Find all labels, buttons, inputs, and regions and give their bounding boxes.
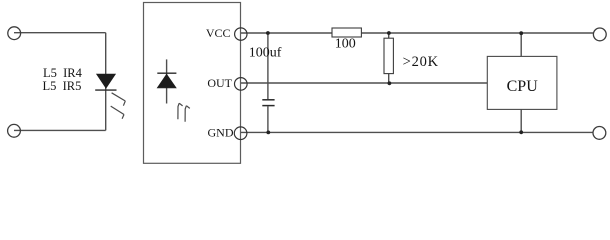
- capacitor C1 branch upper wire: [267, 33, 269, 99]
- wire OUT line: [241, 82, 487, 84]
- pin OUT circle: [235, 78, 248, 91]
- terminal J2 (bottom left): [8, 124, 21, 137]
- pin GND circle: [234, 127, 247, 140]
- svg-text:CPU: CPU: [507, 78, 539, 95]
- resistor R1 body: [332, 28, 361, 37]
- terminal J1 (top left): [8, 27, 21, 40]
- svg-text:OUT: OUT: [207, 76, 232, 90]
- junction dot GND-C1: [266, 131, 270, 135]
- wire top-left horizontal: [14, 32, 106, 34]
- LED D1 emission arrow 2: [111, 106, 124, 119]
- photodiode cathode bar: [157, 72, 176, 74]
- terminal J3 (top right): [593, 28, 606, 41]
- LED D1 triangle: [97, 74, 116, 88]
- wire left vertical (LED branch): [105, 33, 107, 131]
- junction dot GND-CPU: [519, 130, 523, 134]
- LED D1 cathode bar: [95, 89, 116, 91]
- svg-text:100uf: 100uf: [249, 46, 282, 61]
- terminal J4 (bottom right): [593, 126, 606, 139]
- wire CPU to VCC: [520, 33, 522, 56]
- wire bottom-left horizontal: [14, 129, 106, 131]
- LED D1 emission arrow 1: [112, 93, 126, 106]
- capacitor C1 bottom plate: [262, 105, 274, 107]
- pin VCC circle: [235, 28, 247, 40]
- receiver module box U1: [144, 3, 241, 164]
- wire GND rail: [241, 131, 594, 133]
- wire VCC rail: [241, 32, 594, 34]
- junction dot OUT-R2: [388, 81, 392, 85]
- svg-text:GND: GND: [208, 126, 234, 140]
- photodiode incoming arrow 2: [185, 106, 190, 122]
- svg-text:L5 IR5: L5 IR5: [43, 79, 82, 93]
- resistor R2 connecting wire: [388, 33, 390, 83]
- resistor R2 body: [384, 38, 393, 73]
- wire CPU to GND: [520, 109, 522, 132]
- capacitor C1 branch lower wire: [267, 106, 269, 132]
- svg-text:>20K: >20K: [403, 54, 439, 70]
- svg-text:100: 100: [335, 37, 356, 52]
- photodiode incoming arrow 1: [178, 103, 183, 119]
- photodiode triangle: [157, 74, 176, 88]
- capacitor C1 top plate: [262, 99, 274, 101]
- junction dot VCC-CPU: [519, 31, 523, 35]
- photodiode wire vertical: [166, 59, 168, 103]
- svg-text:VCC: VCC: [206, 26, 231, 40]
- junction dot VCC-C1: [266, 31, 270, 35]
- junction dot VCC-R2: [387, 31, 391, 35]
- CPU box U2: [487, 56, 557, 109]
